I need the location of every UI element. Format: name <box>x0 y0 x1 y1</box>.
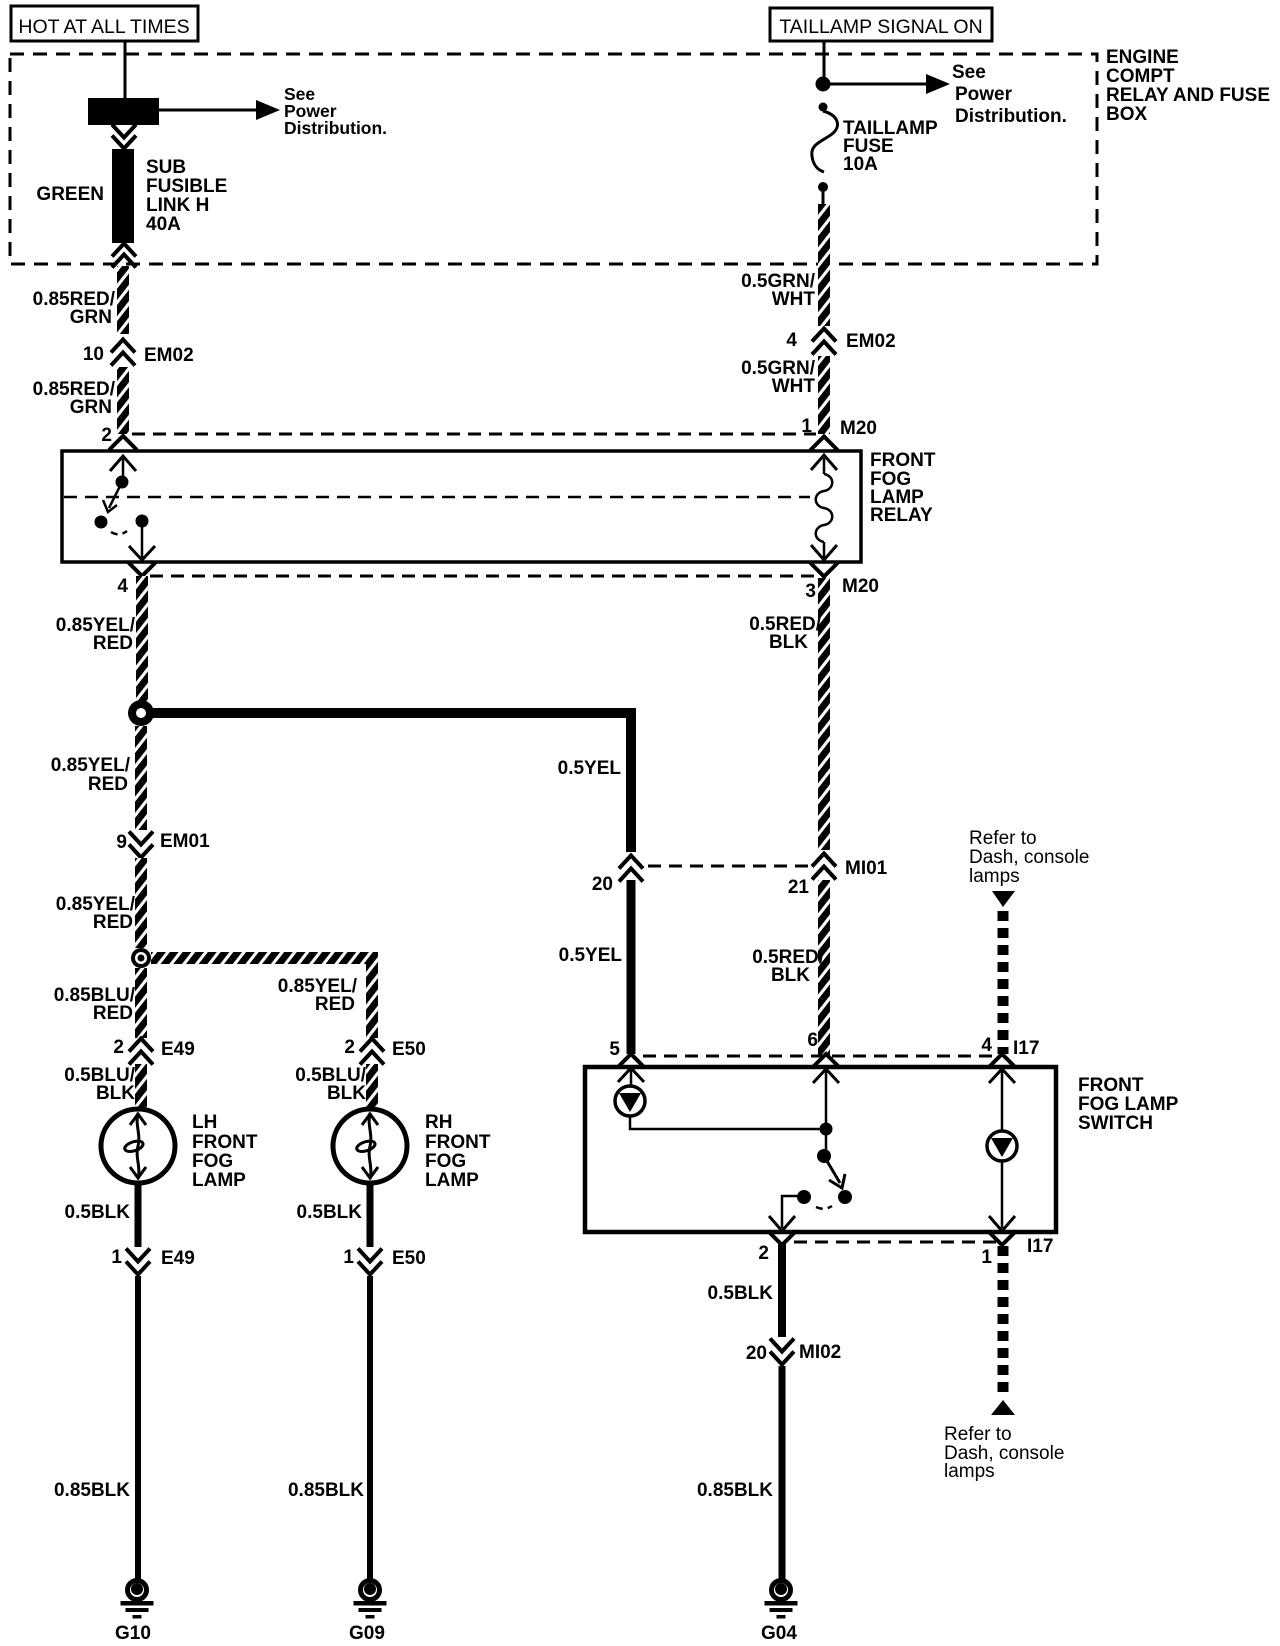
svg-text:LAMP: LAMP <box>192 1170 246 1191</box>
svg-text:lamps: lamps <box>944 1461 995 1482</box>
small dot below fuse <box>818 182 828 192</box>
svg-text:1: 1 <box>343 1247 354 1268</box>
switch pin 1 wire and arrow <box>989 1162 1015 1231</box>
hatched wire 0.5BLU/BLK LH <box>135 1064 147 1108</box>
svg-text:GREEN: GREEN <box>36 184 104 205</box>
svg-text:GRN: GRN <box>70 397 112 418</box>
taillamp fuse symbol <box>812 111 838 172</box>
svg-text:See: See <box>952 62 986 83</box>
svg-text:9: 9 <box>116 832 127 853</box>
relay internal dashed line <box>64 496 810 499</box>
solid wire 0.5BLK RH <box>367 1184 374 1247</box>
svg-text:EM02: EM02 <box>144 345 194 366</box>
svg-text:4: 4 <box>786 330 797 351</box>
wire label 0.5BLU/BLK RH <box>295 1065 366 1104</box>
svg-text:FRONT: FRONT <box>870 450 936 471</box>
svg-text:2: 2 <box>101 425 112 446</box>
hatched wire junction B to E50 (horizontal) <box>151 952 378 964</box>
connector EM02 pin 10 <box>83 340 194 367</box>
dashed link 20 to MI01 <box>648 865 812 868</box>
hatched wire junction A to EM01 <box>135 726 147 830</box>
svg-text:WHT: WHT <box>772 376 816 397</box>
label LH FRONT FOG LAMP <box>192 1112 258 1191</box>
relay pin 4 chevron <box>128 562 156 576</box>
solid wire 0.5BLK pin2 to MI02 <box>778 1244 786 1337</box>
switch pin 2 chevron <box>768 1231 796 1245</box>
svg-text:SWITCH: SWITCH <box>1078 1113 1153 1134</box>
RH front fog lamp <box>333 1109 407 1183</box>
wire label 0.85RED/GRN upper <box>33 289 116 328</box>
switch box label FRONT FOG LAMP SWITCH <box>1078 1075 1179 1134</box>
svg-text:lamps: lamps <box>969 866 1020 887</box>
svg-text:FRONT: FRONT <box>425 1132 491 1153</box>
svg-text:E50: E50 <box>392 1039 426 1060</box>
svg-text:RED: RED <box>93 912 133 933</box>
svg-text:0.5YEL: 0.5YEL <box>558 758 622 779</box>
svg-text:Refer to: Refer to <box>944 1424 1012 1445</box>
svg-text:FRONT: FRONT <box>192 1132 258 1153</box>
svg-text:BLK: BLK <box>96 1083 135 1104</box>
switch pin 4 chevron <box>988 1054 1016 1068</box>
svg-text:20: 20 <box>746 1343 767 1364</box>
label RH FRONT FOG LAMP <box>425 1112 491 1191</box>
label box TAILLAMP SIGNAL ON <box>770 8 992 41</box>
indicator LED right <box>987 1131 1017 1161</box>
label TAILLAMP FUSE 10A <box>843 118 938 175</box>
wire label 0.5RED/BLK lower <box>752 947 825 986</box>
connector E50 pin 1 <box>343 1247 425 1275</box>
svg-text:SUB: SUB <box>146 157 186 178</box>
svg-text:10A: 10A <box>843 154 878 175</box>
svg-text:2: 2 <box>758 1243 769 1264</box>
note See Power Distribution (left) <box>284 84 387 138</box>
wire label 0.85BLU/RED <box>54 985 136 1024</box>
sub fusible link H 40A <box>112 149 134 243</box>
label SUB FUSIBLE LINK H 40A <box>146 157 227 235</box>
solid wire 0.5BLK LH <box>135 1184 142 1247</box>
svg-text:TAILLAMP SIGNAL ON: TAILLAMP SIGNAL ON <box>779 16 982 38</box>
svg-text:Distribution.: Distribution. <box>955 106 1067 127</box>
solid wire 0.85BLK LH <box>135 1276 141 1580</box>
svg-text:RED: RED <box>88 774 128 795</box>
svg-text:GRN: GRN <box>70 307 112 328</box>
triangle arrow up to dash console <box>991 1400 1015 1415</box>
hatched wire 0.85RED/GRN lower <box>117 367 129 434</box>
hatched wire 0.5GRN/WHT lower <box>818 356 830 434</box>
svg-text:RELAY: RELAY <box>870 505 933 526</box>
note See Power Distribution (right) <box>952 62 1067 127</box>
svg-text:3: 3 <box>805 581 816 602</box>
svg-text:0.5BLK: 0.5BLK <box>708 1283 774 1304</box>
LH front fog lamp <box>101 1109 175 1183</box>
svg-text:LAMP: LAMP <box>425 1170 479 1191</box>
svg-text:FOG: FOG <box>192 1151 233 1172</box>
hatched wire 0.85RED/GRN upper <box>117 266 129 334</box>
wire label 0.85RED/GRN lower <box>33 379 116 418</box>
triangle arrow down from dash console <box>992 891 1015 907</box>
arrow to See Power Distribution (left) <box>159 100 280 120</box>
thick wire junction A to switch pin 5 <box>146 713 631 852</box>
svg-text:MI02: MI02 <box>799 1342 841 1363</box>
hatched wire 0.85BLU/RED <box>135 968 147 1038</box>
hatched wire 0.5GRN/WHT upper <box>818 204 830 326</box>
ground G10 <box>115 1581 153 1645</box>
indicator LED left <box>615 1086 645 1116</box>
svg-text:40A: 40A <box>146 214 181 235</box>
connector E50 pin 2 <box>344 1037 425 1065</box>
ground G04 <box>761 1581 797 1645</box>
svg-text:RED: RED <box>93 633 133 654</box>
hatched wire 0.85YEL/RED pin4 to junction A <box>136 576 148 702</box>
connector EM02 pin 4 <box>786 329 895 355</box>
svg-text:2: 2 <box>344 1037 355 1058</box>
svg-text:0.85BLK: 0.85BLK <box>54 1480 130 1501</box>
note Refer to Dash console lamps (bottom) <box>944 1424 1064 1482</box>
arrow to See Power Distribution (right) <box>823 74 950 94</box>
switch pin 6 arrow <box>813 1069 839 1156</box>
junction ring B <box>131 948 151 968</box>
svg-text:10: 10 <box>83 344 104 365</box>
wire label 0.5GRN/WHT lower <box>741 358 816 397</box>
svg-text:0.85BLK: 0.85BLK <box>288 1480 364 1501</box>
wire LED to pin6 junction <box>630 1116 826 1129</box>
svg-text:ENGINE: ENGINE <box>1106 47 1179 68</box>
svg-text:LH: LH <box>192 1112 217 1133</box>
solid wire 0.5YEL lower <box>627 880 636 1054</box>
svg-text:G10: G10 <box>115 1623 151 1644</box>
svg-text:E49: E49 <box>161 1248 195 1269</box>
note Refer to Dash console lamps (top) <box>969 828 1089 887</box>
connector MI02 pin 20 <box>746 1339 841 1365</box>
svg-text:FUSIBLE: FUSIBLE <box>146 176 227 197</box>
hatched wire corner down to E50 <box>366 952 378 1038</box>
switch pin 1 chevron <box>988 1231 1016 1245</box>
svg-text:M20: M20 <box>840 418 877 439</box>
svg-text:BLK: BLK <box>769 632 808 653</box>
svg-text:BLK: BLK <box>327 1083 366 1104</box>
connector MI01 pin 21 <box>788 854 888 899</box>
square-dashed wire I17 pin 1 <box>998 1246 1009 1392</box>
svg-text:RH: RH <box>425 1112 452 1133</box>
square-dashed wire I17 pin 4 <box>998 911 1009 1054</box>
switch pin 6 chevron <box>812 1054 840 1068</box>
front fog lamp relay box <box>62 451 861 562</box>
solid wire 0.85BLK MI02 to G04 <box>779 1366 786 1580</box>
svg-text:0.85YEL/: 0.85YEL/ <box>51 755 131 776</box>
hatched wire EM01 to junction B <box>135 858 147 948</box>
relay switch contact <box>95 476 149 535</box>
svg-text:FOG LAMP: FOG LAMP <box>1078 1094 1179 1115</box>
label box HOT AT ALL TIMES <box>11 6 198 41</box>
connector chevrons below bus bar <box>112 125 136 149</box>
wire label 0.5GRN/WHT upper <box>741 271 816 310</box>
svg-text:0.85BLK: 0.85BLK <box>697 1480 773 1501</box>
box label ENGINE COMPT RELAY AND FUSE BOX <box>1106 47 1270 125</box>
wire label 0.85YEL/RED mid <box>56 894 136 933</box>
svg-text:E49: E49 <box>161 1039 195 1060</box>
I17 connector line top (dashed) <box>609 1030 1039 1060</box>
relay pin 2 arrow <box>110 456 136 482</box>
svg-text:0.5BLK: 0.5BLK <box>297 1202 363 1223</box>
svg-text:5: 5 <box>609 1039 620 1060</box>
M20 connector line top (dashed) <box>101 416 877 446</box>
svg-text:RED: RED <box>93 1003 133 1024</box>
switch pin 2 elbow and arrow <box>769 1196 804 1231</box>
junction ring A <box>128 700 154 726</box>
relay coil <box>811 455 837 560</box>
wire label 0.5BLU/BLK LH <box>64 1065 135 1104</box>
svg-text:21: 21 <box>788 877 810 898</box>
wire fuse to hatch <box>822 190 825 206</box>
switch movable contact <box>797 1149 852 1209</box>
engine compt relay and fuse box (dashed) <box>10 54 1097 264</box>
svg-text:0.5YEL: 0.5YEL <box>559 945 623 966</box>
relay pin 1 chevron <box>810 437 838 451</box>
switch pin 4 arrow <box>989 1069 1015 1132</box>
solid wire 0.85BLK RH <box>367 1276 373 1580</box>
junction dot power feed <box>816 77 831 92</box>
connector E49 pin 2 <box>113 1037 194 1065</box>
bus bar power distribution block <box>88 98 159 125</box>
svg-text:E50: E50 <box>392 1248 426 1269</box>
svg-text:G09: G09 <box>349 1623 385 1644</box>
relay pin 3 chevron <box>810 563 838 577</box>
svg-text:Power: Power <box>955 84 1013 105</box>
connector E49 pin 1 <box>111 1247 194 1275</box>
switch pin 5 chevron <box>617 1054 645 1068</box>
svg-text:20: 20 <box>592 874 613 895</box>
svg-text:BLK: BLK <box>771 965 810 986</box>
svg-text:LINK H: LINK H <box>146 195 209 216</box>
svg-text:1: 1 <box>111 1247 122 1268</box>
connector chevrons above dashed box edge <box>112 244 136 268</box>
svg-text:RELAY AND FUSE: RELAY AND FUSE <box>1106 85 1270 106</box>
I17 connector line bottom (dashed) <box>758 1236 1053 1268</box>
M20 connector line bottom (dashed) <box>117 576 879 602</box>
svg-text:BOX: BOX <box>1106 104 1148 125</box>
svg-text:RED: RED <box>315 994 355 1015</box>
svg-text:WHT: WHT <box>772 289 816 310</box>
svg-text:FOG: FOG <box>425 1151 466 1172</box>
svg-text:2: 2 <box>113 1037 124 1058</box>
svg-text:FRONT: FRONT <box>1078 1075 1144 1096</box>
connector EM01 pin 9 <box>116 831 210 858</box>
hatched wire 0.5BLU/BLK RH <box>366 1064 378 1108</box>
svg-text:Dash, console: Dash, console <box>969 847 1089 868</box>
svg-text:1: 1 <box>981 1247 992 1268</box>
connector 20 on 0.5YEL wire <box>592 856 643 896</box>
front fog lamp switch box <box>585 1067 1056 1232</box>
hatched wire 0.5RED/BLK relay pin3 to MI01 <box>818 578 830 850</box>
svg-text:MI01: MI01 <box>845 858 888 879</box>
svg-text:4: 4 <box>117 576 128 597</box>
small dot above fuse <box>819 103 828 112</box>
wire from TAILLAMP SIGNAL ON <box>823 41 826 82</box>
svg-text:G04: G04 <box>761 1623 797 1644</box>
switch junction dot <box>820 1123 833 1136</box>
svg-text:Refer to: Refer to <box>969 828 1037 849</box>
svg-text:4: 4 <box>981 1035 992 1056</box>
wire from HOT AT ALL TIMES to bus bar <box>124 41 127 98</box>
hatched wire 0.5RED/BLK lower <box>818 880 830 1055</box>
wire label 0.85YEL/RED above EM01 <box>51 755 131 795</box>
relay box label FRONT FOG LAMP RELAY <box>870 450 936 526</box>
svg-text:1: 1 <box>801 416 812 437</box>
svg-text:Distribution.: Distribution. <box>284 118 387 138</box>
svg-text:I17: I17 <box>1027 1236 1053 1257</box>
svg-text:HOT AT ALL TIMES: HOT AT ALL TIMES <box>18 16 189 38</box>
wire label 0.85YEL/RED upper <box>56 615 136 654</box>
ground G09 <box>349 1581 386 1645</box>
wire label 0.5RED/BLK upper <box>749 614 822 653</box>
relay pin 4 arrow <box>129 521 155 560</box>
wire label 0.85YEL/RED right <box>278 976 358 1015</box>
svg-text:M20: M20 <box>842 576 879 597</box>
relay pin 2 chevron <box>109 436 137 450</box>
switch pin 5 arrow <box>618 1068 644 1086</box>
svg-text:COMPT: COMPT <box>1106 66 1175 87</box>
svg-text:I17: I17 <box>1013 1038 1039 1059</box>
svg-text:EM02: EM02 <box>846 331 896 352</box>
svg-text:6: 6 <box>807 1030 818 1051</box>
svg-text:EM01: EM01 <box>160 831 210 852</box>
svg-text:0.5BLK: 0.5BLK <box>65 1202 131 1223</box>
